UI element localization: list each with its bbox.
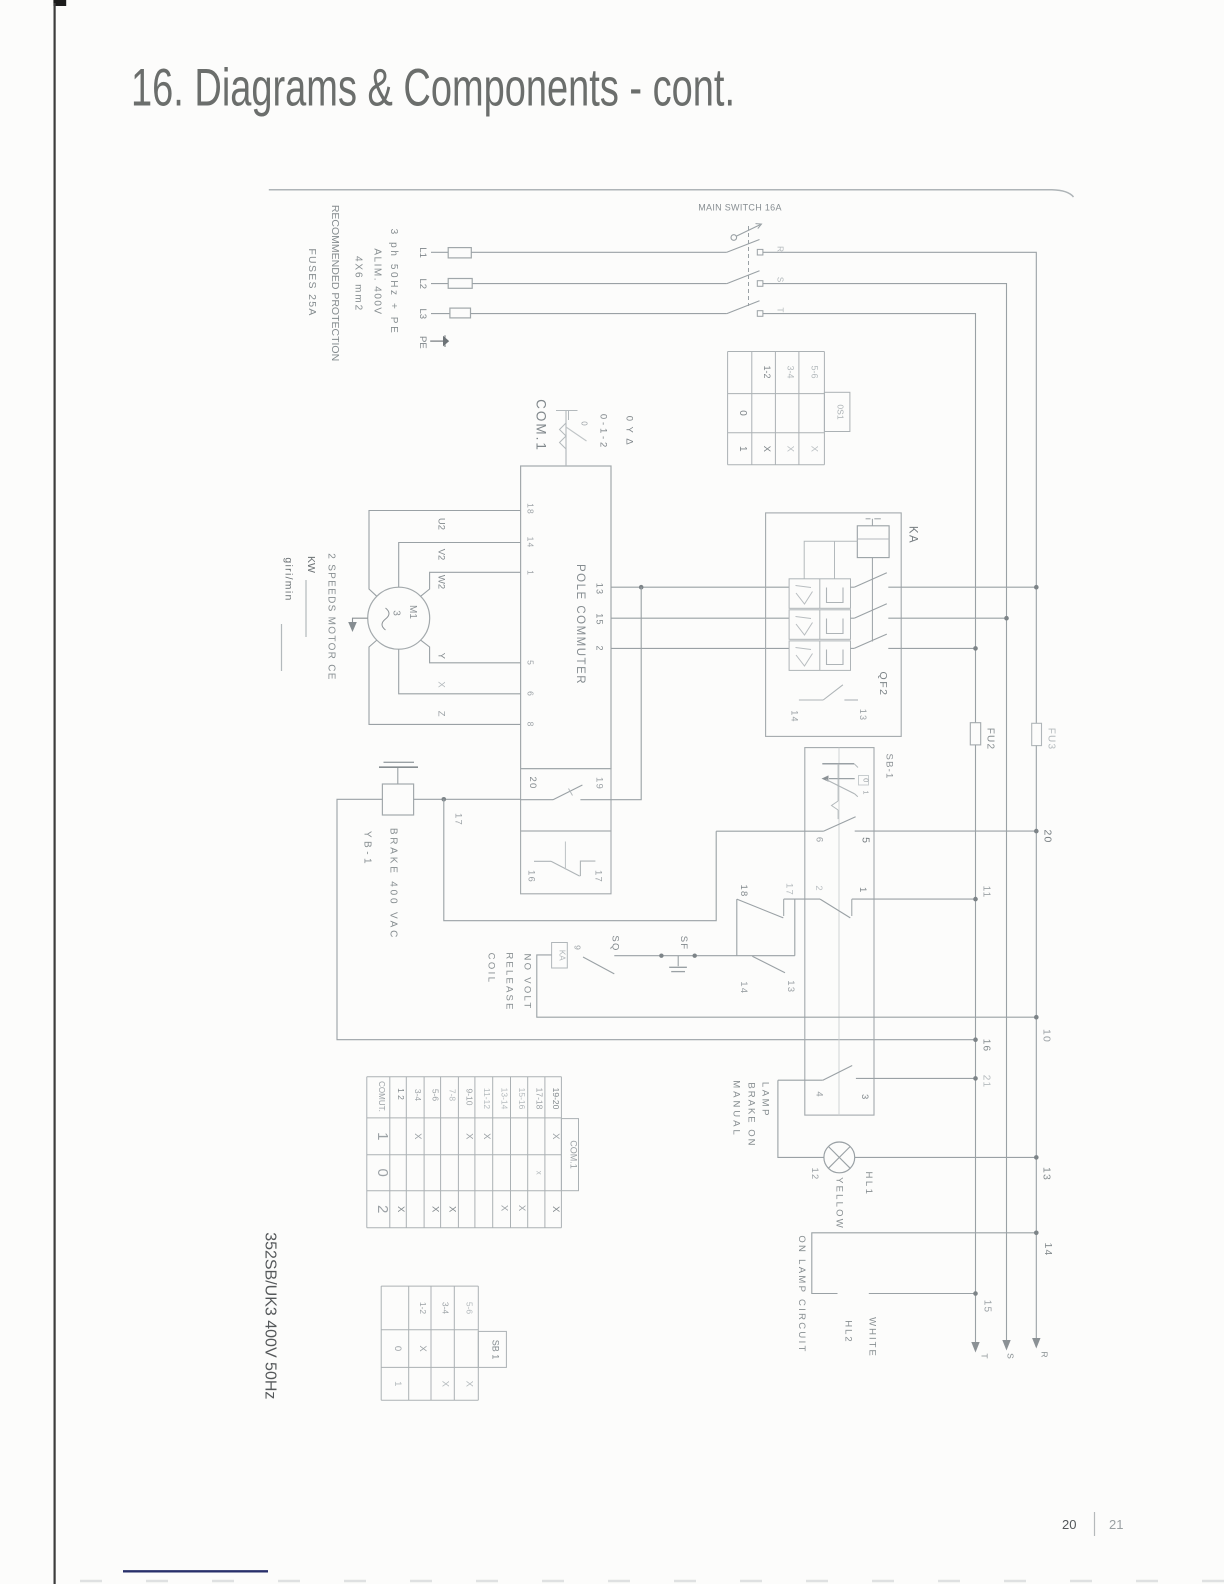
label FUSES 25A [306,248,318,316]
terminal label L2 [417,279,428,290]
svg-text:QF2: QF2 [877,672,889,697]
wire S top [763,284,1007,1347]
label 2 SPEEDS MOTOR CE [326,553,337,681]
svg-text:X: X [784,446,795,453]
wire X pin6 [399,649,521,694]
svg-text:X: X [447,1206,458,1213]
COM1 x r0c17-18 [534,1171,543,1175]
svg-text:X: X [395,1206,406,1213]
svg-text:13-14: 13-14 [500,1088,510,1110]
svg-text:0: 0 [392,1346,403,1351]
svg-text:0S1: 0S1 [835,404,845,419]
svg-text:21: 21 [981,1075,992,1089]
svg-text:RELEASE: RELEASE [504,952,515,1011]
brake YB-1 magnet [379,762,418,815]
svg-text:8: 8 [526,722,536,727]
OS1 table title [835,404,845,419]
svg-text:14: 14 [526,537,536,549]
lamp HL1 [824,1142,855,1173]
svg-text:X: X [429,1206,440,1213]
svg-text:15: 15 [595,613,605,625]
junction wire15 bus T [973,1291,978,1296]
svg-text:1: 1 [526,570,536,575]
pin 8 [526,722,536,727]
pin 14 label [738,981,749,994]
label giri/min [282,557,295,671]
wire16 number [981,1039,992,1053]
svg-text:0: 0 [374,1169,391,1177]
pin 2 [595,645,605,650]
wire L1 to switch [471,251,727,253]
contact 18-17 riser [736,899,738,956]
svg-text:COM.1: COM.1 [534,399,549,452]
svg-text:14: 14 [738,981,749,994]
terminal label X [436,681,447,688]
wire 10 coil to bus R [537,955,1037,1017]
wire 19 to wire13 [611,587,641,800]
svg-text:17-18: 17-18 [534,1088,544,1110]
svg-text:X: X [440,1381,451,1388]
svg-text:18: 18 [526,503,536,515]
wire14 number [1042,1242,1054,1256]
COM1 header 7-8 [448,1089,458,1102]
COM1 row 2 [374,1205,391,1213]
bus R lower [1035,746,1037,1347]
label ALIM. 400V [371,248,382,315]
COM1 header 11-12 [482,1088,492,1109]
selector COM.1 label [534,399,549,452]
svg-text:3: 3 [859,1094,870,1099]
svg-text:2: 2 [813,885,824,890]
svg-text:L3: L3 [417,309,428,320]
svg-text:17: 17 [593,870,604,883]
svg-text:0: 0 [862,778,871,782]
svg-text:21: 21 [1109,1517,1123,1532]
COM1 header 1 2 [396,1088,406,1100]
svg-text:BRAKE 400 VAC: BRAKE 400 VAC [388,828,399,940]
QF2 aux contact 14-13 [799,685,858,700]
left margin rule [53,0,66,1584]
relay KA aux box [552,943,568,969]
svg-text:12: 12 [809,1168,820,1181]
phase label R [776,246,785,252]
SB-1 designator [884,754,895,780]
svg-text:YB-1: YB-1 [362,831,373,867]
KA designator [907,526,919,544]
svg-text:0 Y Δ: 0 Y Δ [624,416,635,446]
svg-text:11-12: 11-12 [482,1088,492,1109]
svg-text:3: 3 [391,610,402,616]
wire V2 pin14 [399,543,521,588]
svg-text:YELLOW: YELLOW [834,1177,845,1230]
COM1 X r2c19-20 [550,1206,561,1213]
svg-text:18: 18 [738,885,749,898]
pin 16 [526,870,537,883]
wire13 number [1041,1167,1053,1181]
COM1 X r2c13-14 [499,1205,510,1212]
svg-text:16: 16 [526,870,537,883]
junction wire20 bus R [1034,829,1039,834]
COM1 X r2c7-8 [447,1206,458,1213]
wire W2 pin1 [421,572,521,596]
svg-text:5-6: 5-6 [810,365,820,378]
wire 15 commuter to KA [611,617,789,619]
svg-text:1: 1 [392,1381,403,1386]
QF2 aux pin 13 [858,709,868,721]
pin 4 [813,1091,824,1096]
commuter aux contact box [521,831,611,894]
label 3 ph 50Hz + PE [388,229,399,336]
svg-text:X: X [436,681,447,688]
switch box SB-1 [805,748,874,1116]
pin 13 label [785,980,796,993]
SB-1 pushbutton actuator [822,764,859,819]
schematic top border [269,190,1074,197]
svg-text:U2: U2 [436,518,447,530]
bus S arrow [1002,1340,1010,1351]
svg-text:Y: Y [436,653,447,660]
svg-text:L2: L2 [417,279,428,290]
selector position 0 tag [580,421,589,426]
junction wire13 bus R [1034,585,1039,590]
SB1 state table grid [381,1286,506,1400]
svg-text:3-4: 3-4 [413,1089,423,1102]
svg-text:3-4: 3-4 [785,365,795,378]
fuse FU2 [970,723,980,745]
svg-text:15: 15 [982,1300,993,1314]
overload element 1 [789,579,850,609]
footer blue rule [123,1570,268,1572]
svg-text:0: 0 [580,421,589,426]
motor M1 [368,587,430,649]
svg-text:1 2: 1 2 [396,1088,406,1100]
main switch handle [731,224,762,241]
svg-text:2: 2 [595,645,605,650]
lamp designator HL2 [843,1320,854,1343]
svg-text:HL2: HL2 [843,1320,854,1343]
wire L1 left [431,251,448,253]
svg-text:ON LAMP CIRCUIT: ON LAMP CIRCUIT [796,1235,807,1353]
bus label R [1040,1351,1050,1357]
COM1 header 19-20 [551,1088,561,1110]
svg-text:FUSES 25A: FUSES 25A [306,248,318,316]
contact 16-17 [534,842,595,877]
bus T arrow [971,1342,979,1353]
svg-text:FU2: FU2 [985,728,996,751]
svg-text:0-1-2: 0-1-2 [598,414,609,450]
svg-text:RECOMMENDED PROTECTION: RECOMMENDED PROTECTION [329,205,341,361]
terminal label Z [436,711,447,717]
KA contact pole 2 [851,604,1007,618]
terminal label L1 [417,247,428,258]
svg-text:9-10: 9-10 [465,1088,475,1105]
label BRAKE 400 VAC [388,828,399,940]
svg-text:X: X [464,1133,475,1140]
svg-text:SB 1: SB 1 [490,1340,500,1360]
svg-text:COM.1: COM.1 [568,1140,578,1169]
wire brake to contact20 [414,798,521,800]
pin 20 [527,777,538,790]
svg-text:SF: SF [678,936,689,951]
pin 19 [594,777,605,790]
wire15 number [982,1300,993,1314]
limit switch SQ label [610,935,621,951]
svg-text:NO VOLT: NO VOLT [522,953,533,1010]
COM1 X r1c9-10 [464,1133,475,1140]
junction wire21 bus T [973,1076,978,1081]
pin 18 label [738,885,749,898]
pin 15 [595,613,605,625]
wire 17-2 link [784,898,820,900]
OS1 mark X 1-2 [761,446,772,453]
wire11 number [981,886,992,899]
svg-text:FU3: FU3 [1046,728,1057,751]
junction SF left [659,954,663,958]
svg-text:S: S [776,277,785,282]
svg-text:HL1: HL1 [863,1172,874,1197]
svg-text:13: 13 [858,709,868,721]
SB1 X r0c1-2 [417,1345,428,1352]
svg-text:WHITE: WHITE [867,1317,878,1358]
label 4X6 mm2 [353,256,364,312]
svg-text:SB-1: SB-1 [884,754,895,780]
COM1 X r1c19-20 [550,1133,561,1140]
OS1 row 0 [737,410,748,416]
svg-text:5-6: 5-6 [464,1302,474,1315]
svg-text:X: X [809,446,820,453]
pin 1 label [857,887,868,892]
QF2 designator [877,672,889,697]
fuse F1 [448,248,471,258]
svg-text:R: R [776,246,785,252]
wire 17 brake to SB1 [444,799,716,920]
svg-text:X: X [481,1133,492,1140]
bus label T [980,1353,990,1358]
wire 2 commuter to KA [611,647,789,649]
wire20 number [1042,829,1054,843]
svg-text:1-2: 1-2 [418,1302,428,1315]
wire R top [763,252,1036,723]
selector COM.1 symbol [556,411,587,467]
terminal label V2 [436,549,447,561]
wire L3 left [431,313,450,315]
svg-text:2: 2 [374,1205,391,1213]
motor label 3~ [382,608,402,630]
overload bridge wiring [804,541,857,579]
svg-text:3-4: 3-4 [441,1302,451,1315]
fuse F2 [448,279,472,289]
main switch pole 3 [727,301,763,317]
OS1 mark X 5-6 [809,446,820,453]
svg-text:W2: W2 [436,575,447,589]
wire U2 pin18 [369,511,521,597]
svg-text:13: 13 [595,583,605,595]
svg-text:1-2: 1-2 [762,365,772,378]
bus R arrow [1032,1338,1040,1349]
COM1 header 5-6 [430,1089,440,1102]
svg-text:X: X [412,1133,423,1140]
OS1 mark X 3-4 [784,446,795,453]
main switch pole 2 [727,271,763,287]
svg-text:giri/min: giri/min [283,557,295,601]
COM1 header 3-4 [413,1089,423,1102]
wire L2 to switch [472,283,727,285]
pin 6 [526,691,536,696]
terminal label Y [436,653,447,660]
svg-text:ALIM. 400V: ALIM. 400V [371,248,382,315]
motor shaft earth arrow [348,618,368,632]
svg-text:6: 6 [814,837,825,842]
KA contact pole 3 [851,634,976,648]
pin 13 [595,583,605,595]
COM1 header COMUT. [377,1081,386,1112]
OS1 header 1-2 [762,365,772,378]
lamp colour WHITE [867,1317,878,1358]
main switch pole 1 [727,240,763,256]
pin 14 [526,537,536,549]
junction wire13 brake tap [639,585,644,590]
page footer numbers [1062,1512,1123,1536]
contact 20-19 [521,785,611,800]
junction wire16 bus T [973,1037,978,1042]
lamp switch gap wire 15 [869,1293,976,1295]
svg-text:COMUT.: COMUT. [377,1081,386,1112]
svg-text:15-16: 15-16 [517,1088,527,1110]
pin 17 label [784,883,795,896]
svg-text:19-20: 19-20 [551,1088,561,1110]
svg-text:5-6: 5-6 [430,1089,440,1102]
COM1 header 17-18 [534,1088,544,1110]
label YB-1 [362,831,373,867]
PE earth arrow [430,335,449,347]
svg-text:20: 20 [1042,829,1054,843]
OS1 state table [728,352,850,465]
svg-text:14: 14 [1042,1242,1054,1256]
wire lamp feed [778,1080,824,1157]
phase label S [776,277,785,282]
bottom scan edge [80,1580,1224,1582]
svg-text:L1: L1 [417,247,428,258]
svg-text:R: R [1040,1351,1050,1357]
KA contact pole 1 [851,573,1037,588]
svg-text:5: 5 [526,660,536,665]
junction wire10 bus R [1034,1015,1039,1020]
svg-text:M1: M1 [407,605,418,619]
svg-text:KW: KW [305,556,317,573]
OS1 header 3-4 [785,365,795,378]
junction wire15 bus S [1004,616,1009,621]
svg-text:16. Diagrams & Components - co: 16. Diagrams & Components - cont. [131,59,735,118]
svg-text:20: 20 [1062,1517,1076,1532]
KA aux contact blade [583,957,614,974]
svg-text:10: 10 [1041,1029,1053,1043]
wire10 number [1041,1029,1053,1043]
svg-text:3 ph 50Hz + PE: 3 ph 50Hz + PE [388,229,399,336]
terminal label U2 [436,518,447,530]
dropper to 14-13 [794,899,796,956]
bus T lower [975,745,977,1350]
SB1 header 1-2 [418,1302,428,1315]
COM1 state table grid [367,1077,579,1228]
fuse F3 [450,308,471,318]
contact 18-17 blade [737,899,784,918]
svg-text:6: 6 [526,691,536,696]
wire 14 lamp circuit [812,1233,1037,1294]
selector label 0 Y D [624,416,635,446]
drawing number 352SB/UK3 400V 50Hz [261,1232,278,1399]
svg-text:X: X [463,1381,474,1388]
SB1 row 0 [392,1346,403,1351]
svg-text:7-8: 7-8 [448,1089,458,1102]
pole commuter title [574,564,586,685]
KA actuator link [866,519,881,642]
svg-text:S: S [1006,1353,1016,1359]
contactor KA / overload QF2 box [766,513,902,737]
terminal label W2 [436,575,447,589]
bus label S [1006,1353,1016,1359]
SB-1 position tag 0 [859,776,871,786]
wire 16 brake to bus T [337,799,976,1039]
SB1 row 1 [392,1381,403,1386]
contact pin 5 [860,837,872,843]
svg-text:Z: Z [436,711,447,717]
svg-text:11: 11 [981,886,992,899]
svg-text:X: X [550,1133,561,1140]
svg-text:BRAKE ON: BRAKE ON [745,1082,756,1147]
svg-text:5: 5 [860,837,872,843]
junction brake wire17 [442,797,447,802]
contact pin 6 [814,837,825,842]
terminal label L3 [417,309,428,320]
svg-text:20: 20 [527,777,538,790]
junction wire13 bus R lamp [1034,1155,1039,1160]
svg-text:X: X [417,1345,428,1352]
pin 17 [593,870,604,883]
junction SF right [693,954,697,958]
svg-text:1: 1 [862,790,871,794]
pole commuter box [521,466,611,769]
svg-text:1: 1 [374,1132,391,1140]
svg-text:19: 19 [594,777,605,790]
svg-text:T: T [776,308,785,313]
SB1 table title [490,1340,500,1360]
svg-text:2 SPEEDS MOTOR CE: 2 SPEEDS MOTOR CE [326,553,337,681]
lamp designator HL1 [863,1172,874,1197]
wire Y pin5 [421,640,521,663]
pin 18 [526,503,536,515]
SB1 X r1c3-4 [440,1381,451,1388]
svg-text:17: 17 [784,883,795,896]
SB1 header 5-6 [464,1302,474,1315]
SB-1 start contact 6-5 [716,817,1036,831]
svg-text:1: 1 [737,446,748,452]
wire21 number [981,1075,992,1089]
main switch QS1 label [698,203,782,213]
COM1 header 13-14 [500,1088,510,1110]
KA coil [857,526,889,558]
COM1 header 9-10 [465,1088,475,1105]
svg-text:x: x [534,1171,543,1175]
pin 3 [859,1094,870,1099]
pin 5 [526,660,536,665]
svg-text:V2: V2 [436,549,447,561]
svg-text:13: 13 [785,980,796,993]
label LAMP BRAKE ON MANUAL [731,1080,771,1147]
COM1 X r1c3-4 [412,1133,423,1140]
overload element 3 [789,641,850,671]
lamp pin 12 [809,1168,820,1181]
COM1 X r1c11-12 [481,1133,492,1140]
